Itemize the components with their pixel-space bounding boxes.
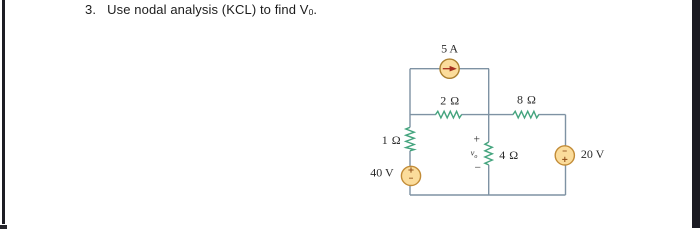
left page-edge bar xyxy=(2,0,5,224)
right page-edge bar xyxy=(692,0,700,228)
wire middle horizontal seg1 xyxy=(410,114,436,116)
resistor R 4ohm zigzag xyxy=(485,142,492,165)
svg-text:+: + xyxy=(473,133,480,145)
40V minus sign xyxy=(409,177,413,179)
wire right vertical lower xyxy=(565,166,567,196)
20V minus sign xyxy=(563,150,567,152)
20V plus sign xyxy=(562,157,567,162)
svg-text:−: − xyxy=(475,162,482,174)
wire middle horizontal seg3 xyxy=(539,114,566,116)
resistor R 1ohm zigzag xyxy=(406,127,414,151)
resistor R 8ohm zigzag xyxy=(513,111,539,118)
current source 5A circle xyxy=(440,59,459,78)
wire center vertical upper xyxy=(488,69,490,142)
svg-text:8 Ω: 8 Ω xyxy=(517,93,536,107)
problem title text xyxy=(85,2,317,17)
wire bottom horizontal xyxy=(410,194,566,196)
wire left vertical lower xyxy=(409,186,411,195)
wire top horizontal xyxy=(410,68,489,70)
svg-text:4 Ω: 4 Ω xyxy=(499,148,518,162)
svg-text:5 A: 5 A xyxy=(441,42,458,56)
svg-text:40 V: 40 V xyxy=(370,166,394,180)
svg-text:1 Ω: 1 Ω xyxy=(382,133,401,147)
current source 5A arrow xyxy=(443,68,451,70)
40V plus sign xyxy=(408,167,413,172)
wire right vertical upper xyxy=(565,115,567,146)
resistor R 2ohm zigzag xyxy=(436,111,462,118)
svg-text:2 Ω: 2 Ω xyxy=(440,93,459,107)
wire center vertical lower xyxy=(488,165,490,195)
svg-text:20 V: 20 V xyxy=(581,147,605,161)
left page-edge bottom nub xyxy=(0,225,7,229)
voltage source 20V circle xyxy=(555,146,574,165)
wire left vertical mid xyxy=(409,151,411,166)
svg-text:vo: vo xyxy=(471,148,478,161)
wire middle horizontal seg2 xyxy=(461,114,513,116)
voltage source 40V circle xyxy=(401,166,420,185)
wire left vertical upper xyxy=(409,69,411,128)
